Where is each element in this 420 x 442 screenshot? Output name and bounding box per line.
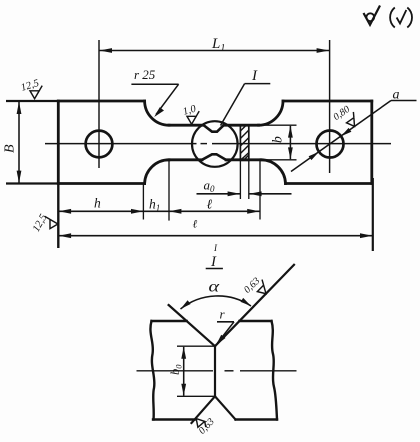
hole right xyxy=(317,131,344,158)
wire left edge xyxy=(57,101,60,184)
svg-text:B: B xyxy=(3,144,18,153)
roughness 0,63 on upper right flank xyxy=(254,280,271,297)
wire top-left fillet r25 xyxy=(145,101,169,125)
section strip hatched xyxy=(240,125,248,160)
right hole vertical centerline xyxy=(329,40,331,173)
notch V top xyxy=(204,125,224,132)
svg-text:h: h xyxy=(94,196,101,211)
wire narrow top edge xyxy=(169,124,259,127)
horizontal centerline xyxy=(45,143,391,145)
hole left xyxy=(86,131,113,158)
detail centerline xyxy=(137,370,297,372)
angle alpha arc with arrows xyxy=(181,296,252,309)
notch vertical ligament line xyxy=(214,346,216,396)
dimension a0 xyxy=(197,160,292,199)
svg-text:b: b xyxy=(270,136,285,143)
wire break line right xyxy=(272,321,278,420)
roughness 12,5 left edge rotated xyxy=(45,216,58,228)
dimension b xyxy=(249,125,297,160)
wire top edge right xyxy=(240,320,272,322)
label alpha xyxy=(209,278,220,295)
specimen outline top view xyxy=(58,101,372,184)
wire bottom edge right wide section xyxy=(286,182,372,185)
wire bottom edge right xyxy=(236,418,278,420)
wire bottom edge left xyxy=(153,418,195,420)
dimension overall l xyxy=(58,178,373,251)
leader a with arrows through right hole xyxy=(291,101,417,172)
left hole vertical centerline xyxy=(98,40,100,168)
wire bottom edge left wide section xyxy=(58,182,144,185)
dimension B xyxy=(6,101,58,184)
roughness 1,0 on narrow top edge xyxy=(182,103,200,124)
notch V bottom xyxy=(202,154,226,160)
svg-text:r 25: r 25 xyxy=(134,67,156,82)
svg-text:ℓ: ℓ xyxy=(207,197,213,212)
svg-text:ℓ: ℓ xyxy=(193,219,198,231)
notch flank upper-right extended xyxy=(215,265,294,346)
wire right edge xyxy=(370,101,373,184)
wire bottom-left fillet r25 xyxy=(145,160,169,184)
dimension line h h1 l xyxy=(59,160,260,221)
notch flank upper-left extended xyxy=(169,305,215,346)
r25 label and leader xyxy=(131,84,178,117)
notch lower flank right xyxy=(215,396,236,419)
notch lower flank left extended xyxy=(192,396,216,423)
wire narrow bottom edge xyxy=(169,158,261,161)
detail body outline xyxy=(150,321,277,420)
svg-text:I: I xyxy=(210,254,217,270)
r label with leader to notch root xyxy=(216,322,234,346)
svg-text:I: I xyxy=(251,68,258,84)
svg-text:α: α xyxy=(209,278,220,295)
roughness 0,80 on leader xyxy=(344,112,361,129)
wire bottom-right fillet r25 xyxy=(261,160,286,184)
wire top edge right wide section xyxy=(283,100,372,103)
svg-text:a: a xyxy=(393,88,400,103)
wire break line left xyxy=(150,321,154,420)
roughness 0,63 on lower left flank xyxy=(196,419,206,428)
surface finish symbol check with circle xyxy=(364,6,381,25)
detail reference I label and leader xyxy=(221,84,271,126)
detail circle around notch xyxy=(192,121,238,167)
roughness 12,5 top left xyxy=(20,78,43,99)
dimension b0 xyxy=(177,346,216,396)
dimension L1 xyxy=(99,48,330,53)
surface finish symbol in parentheses xyxy=(390,8,412,28)
wire top-right fillet r25 xyxy=(259,101,283,125)
wire top edge left wide section xyxy=(58,100,144,103)
wire top edge left xyxy=(152,320,187,322)
